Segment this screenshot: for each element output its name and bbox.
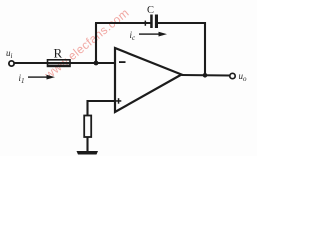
svg-text:C: C	[147, 5, 154, 16]
svg-text:R: R	[54, 46, 63, 61]
svg-text:i1: i1	[19, 73, 25, 85]
svg-text:ui: ui	[6, 48, 13, 60]
svg-text:uo: uo	[239, 71, 248, 83]
svg-text:ic: ic	[130, 30, 137, 42]
